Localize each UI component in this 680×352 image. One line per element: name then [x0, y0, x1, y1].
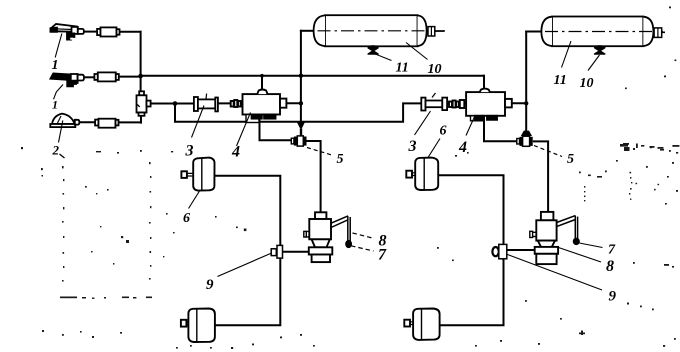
svg-text:10: 10 [580, 76, 594, 91]
leader 9 left [218, 254, 271, 277]
coupling head 1 [97, 27, 119, 36]
svg-text:8: 8 [606, 258, 614, 275]
leader 11 left [374, 54, 392, 61]
svg-text:11: 11 [554, 73, 567, 88]
coupling head 1b [94, 72, 118, 81]
leader 2 [59, 121, 63, 143]
wire: main supply line [141, 75, 484, 77]
filter 3 right [421, 93, 447, 111]
leader 3 right [415, 111, 431, 135]
svg-text:5: 5 [337, 152, 344, 167]
single valve 5 left [291, 122, 306, 146]
brake chamber 6 left [181, 158, 214, 191]
lever arm 7 left [331, 216, 351, 248]
svg-text:3: 3 [185, 143, 194, 160]
leader 4 right [466, 117, 475, 136]
single valve 5 right [517, 131, 533, 147]
wire: comp3 to block4 left [218, 102, 243, 104]
leader 3 left [192, 106, 205, 138]
wire: hand valve 1 to coupling [84, 31, 97, 33]
wire: pedal valve 2 to coupling [80, 121, 96, 123]
leader 6 left [189, 191, 200, 209]
hand control valve 1 (upper) [51, 24, 84, 40]
svg-text:6: 6 [183, 211, 190, 226]
drain valve 10 right [595, 46, 605, 54]
leader 9 right [508, 255, 603, 291]
wire: right tank port [526, 31, 542, 33]
modulator valve left [304, 212, 333, 262]
svg-text:5: 5 [567, 152, 574, 167]
wire: block4 right bottom stem to valve5 right [484, 119, 517, 141]
quick release valve 9 right [492, 244, 506, 258]
leader 8 right [559, 248, 602, 263]
leader 11 right [562, 41, 572, 68]
leader 1 middle [54, 85, 64, 100]
svg-text:10: 10 [428, 62, 442, 77]
leader 6 right [428, 139, 440, 158]
hose fitting left [231, 100, 241, 107]
wire: hand valve 1 output [120, 31, 141, 33]
leader 5 right (dashed) [534, 146, 562, 157]
wire: block4 left right-port line [286, 102, 301, 104]
wire: hand valve 1b output [119, 76, 141, 78]
wire: block4 left top stem [261, 76, 263, 90]
leader 8 left (dashed) [353, 233, 375, 238]
brake chamber lower left [181, 309, 215, 343]
svg-text:11: 11 [396, 61, 409, 76]
wire: left tank port [301, 30, 314, 32]
pedal brake valve 2 [50, 114, 79, 128]
wire: protection valve side port line [151, 103, 194, 105]
leader 5 left (dashed) [307, 148, 331, 155]
wire: valve5 right out to modulator right top [534, 141, 548, 212]
svg-text:9: 9 [206, 277, 214, 293]
wire: valve9 right to modulator right [507, 249, 535, 251]
brake valve 4 right [466, 89, 512, 121]
svg-text:7: 7 [378, 247, 387, 264]
brake valve 4 left [243, 90, 287, 123]
quick release valve 9 left [271, 245, 282, 258]
leader 7 right [579, 243, 602, 248]
wire: hand valve 1b to coupling [84, 76, 94, 78]
wire: protection valve bottom stem [140, 116, 142, 123]
protection valve [137, 91, 151, 116]
air reservoir 10 (left tank) [314, 15, 445, 46]
leader 10 right [588, 55, 600, 71]
svg-text:7: 7 [608, 243, 616, 258]
wire: hand-brake branch lower line [175, 103, 421, 121]
wire: chamber6 right to valve9 right vertical [438, 175, 503, 325]
svg-text:1: 1 [52, 58, 59, 73]
junction protection valve branch [173, 101, 178, 106]
modulator valve right [530, 212, 558, 264]
lever arm 7 right [557, 216, 580, 245]
svg-text:2: 2 [52, 143, 60, 158]
wire: comp3 right to block4 right [447, 102, 466, 104]
wire: main line corner into block4 right [483, 76, 485, 89]
brake chamber lower right [404, 309, 439, 340]
hand control valve 1b (middle) [50, 73, 84, 87]
junction at hand valves [138, 74, 143, 79]
svg-text:6: 6 [440, 124, 447, 139]
leader 4 left [237, 113, 251, 147]
svg-text:9: 9 [609, 289, 617, 305]
svg-text:1: 1 [52, 98, 58, 112]
junction main line / tank drop [299, 74, 303, 78]
leader 1 upper [55, 34, 62, 58]
wire: right tank feed drop [525, 32, 527, 131]
leader 10 left [406, 43, 428, 60]
svg-text:4: 4 [231, 144, 240, 161]
wire: valve5 left out to modulator top [307, 141, 321, 212]
wire: valve9 left to modulator [283, 251, 310, 253]
coupling head 2 [95, 119, 118, 128]
wire: block4 left bottom stem to valve5 [260, 118, 292, 140]
air reservoir 11 (right tank) [541, 17, 665, 47]
tick below label 2 [60, 154, 65, 158]
brake chamber 6 right [406, 158, 438, 190]
leader 7 left (dashed) [351, 246, 374, 251]
svg-text:3: 3 [408, 138, 417, 155]
drain valve 11 left [368, 46, 378, 54]
wire: chamber6 left to valve9 vertical [215, 176, 281, 325]
wire: vertical from hand valve 1 to junction and protection valve [140, 32, 142, 92]
svg-text:4: 4 [458, 139, 467, 156]
filter 3 left [194, 94, 218, 112]
junction tick main line block4 top [260, 74, 264, 78]
wire: block4 right right-port line [512, 102, 526, 104]
junction block4 left port [299, 101, 303, 105]
junction block4 right port / tank drop [524, 101, 528, 105]
wire: pedal valve 2 output [119, 121, 142, 123]
hose fitting right [449, 100, 464, 108]
wire: left tank feed drop [300, 31, 302, 123]
